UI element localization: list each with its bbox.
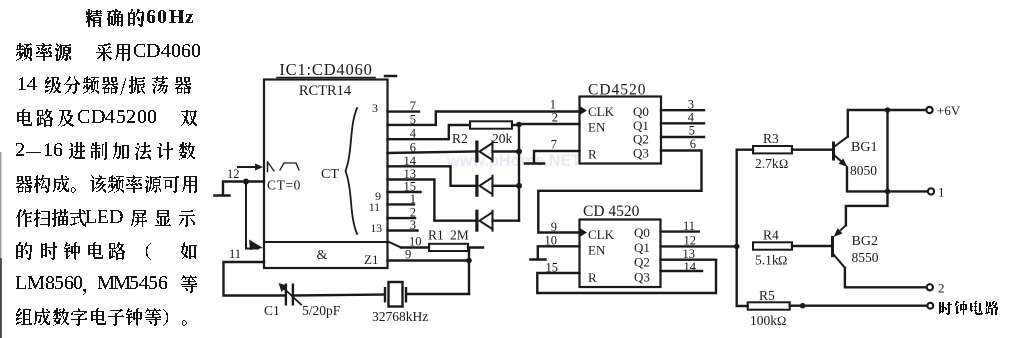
diode D3 (475, 210, 519, 232)
IC1 clock input arrow and pulse symbol (238, 162, 299, 172)
svg-text:Q2: Q2 (633, 132, 649, 147)
svg-text:2.7k: 2.7k (755, 156, 779, 171)
wire pin 7 stub (388, 110, 420, 112)
node pin9/R1 junction (466, 258, 472, 264)
terminal +6V (926, 103, 960, 118)
IC1 label CT=0 (267, 178, 301, 193)
resistor R1 2M (428, 228, 483, 252)
IC1 pin 9 label (405, 248, 411, 262)
svg-text:CT=0: CT=0 (267, 178, 301, 193)
left description paragraph (CJK vector text) (16, 9, 200, 326)
U2 output pin labels 3 4 5 6 (688, 98, 696, 152)
svg-text:8550: 8550 (852, 250, 879, 265)
IC IC1 CD4060 body RCTR14 (264, 80, 388, 269)
diode D1 (475, 141, 519, 163)
ground at pin 12 (215, 194, 230, 197)
IC U2 CD4520 upper label (588, 82, 647, 99)
svg-text:R5: R5 (759, 288, 775, 303)
wire pin 2 stub (388, 217, 416, 219)
wire pin12 down to Z1 input (246, 182, 258, 249)
IC1 label Z1 (364, 252, 378, 267)
svg-text:1: 1 (550, 98, 556, 112)
wire U3 Q3 pin14 stub (661, 270, 703, 272)
wire pin 10 to R1 (388, 242, 429, 248)
node pin12 junction (243, 179, 249, 185)
svg-text:CD 4520: CD 4520 (583, 203, 640, 220)
svg-text:6: 6 (690, 137, 696, 151)
svg-text:5.1k: 5.1k (755, 253, 779, 268)
node R2/diode junction (516, 122, 522, 128)
svg-text:CLK: CLK (588, 104, 615, 119)
svg-text:BG1: BG1 (851, 140, 877, 155)
wire U2 Q0 pin3 stub (661, 109, 704, 111)
IC U2 CD4520 upper body (580, 97, 662, 164)
capacitor C1 variable 5/20pF (264, 283, 341, 318)
diode D2 (475, 175, 519, 197)
wire pin 9 (388, 259, 470, 261)
svg-text:13: 13 (371, 223, 383, 235)
svg-text:Ω: Ω (778, 254, 787, 268)
wire R5 to clock circuit terminal (790, 305, 928, 307)
wire R1 down to crystal node (468, 249, 470, 294)
wire pin 13 to D3 (388, 180, 476, 221)
svg-text:5: 5 (689, 124, 695, 138)
svg-text:2M: 2M (450, 228, 469, 243)
svg-text:9: 9 (551, 220, 557, 234)
transistor BG2 8550 PNP (831, 225, 879, 267)
svg-text:2: 2 (552, 111, 558, 125)
svg-text:R4: R4 (763, 228, 779, 243)
node D2 junction (516, 183, 522, 189)
IC U3 CD4520 lower body (580, 220, 661, 288)
svg-text:20k: 20k (492, 131, 513, 146)
wire pin 1 stub (388, 203, 415, 205)
node +6V rail junction (885, 107, 891, 113)
scan edge mark (0, 152, 2, 338)
ground at U2 pin7 (525, 162, 544, 165)
svg-text:2: 2 (938, 281, 945, 296)
svg-text:9: 9 (375, 189, 381, 203)
svg-text:100k: 100k (750, 313, 777, 328)
IC1 pin 12 label (227, 167, 240, 181)
svg-text:Q3: Q3 (633, 146, 649, 161)
wire diode OR bus vertical (518, 125, 520, 221)
svg-text:EN: EN (588, 120, 606, 135)
svg-text:EN: EN (588, 243, 606, 258)
svg-text:R1: R1 (428, 228, 444, 243)
wire C1 to crystal (294, 295, 384, 296)
label clock circuit (CJK vector) (939, 301, 998, 315)
wire U3 Q1 pin12 to bus (661, 245, 737, 247)
wire crystal to pin9 node (407, 293, 469, 295)
wire pin12 to ground (223, 182, 246, 195)
wire pin 3 stub (388, 229, 418, 231)
svg-text:R3: R3 (763, 131, 779, 146)
terminal 1 (928, 185, 945, 200)
wire pin 5 to CD4520 CLK pin1 (388, 112, 580, 125)
wire R4 to BG2 base (792, 245, 831, 247)
wire U3 R pin15 feedback loop (537, 260, 716, 293)
resistor R5 100k (748, 288, 790, 328)
svg-text:CLK: CLK (588, 227, 615, 242)
IC1 internal stage numbers (369, 101, 382, 235)
wire BG2 collector to terminal 2 (845, 268, 927, 288)
svg-text:Q1: Q1 (634, 240, 650, 255)
svg-text:CT: CT (321, 167, 339, 182)
Z1 input arrow (249, 240, 263, 251)
IC1 CT brace (321, 108, 357, 234)
svg-text:IC1:CD4060: IC1:CD4060 (279, 60, 372, 79)
wire U2 Q1 pin4 stub (661, 122, 704, 124)
crystal Y1 32768kHz (372, 282, 428, 324)
svg-text:1: 1 (938, 185, 945, 200)
wire pin 4 to R2 (388, 125, 471, 139)
svg-text:R: R (588, 270, 597, 285)
watermark (446, 152, 581, 170)
svg-text:11: 11 (369, 202, 380, 214)
wire U3 Q2 pin13 to loop (661, 259, 717, 261)
svg-text:Q3: Q3 (634, 270, 650, 285)
svg-text:R2: R2 (452, 131, 468, 146)
transistor BG1 8050 NPN (832, 137, 877, 179)
svg-text:7: 7 (551, 138, 557, 152)
wire pin 15 stub (388, 191, 421, 193)
IC U3 CD4520 lower label (583, 203, 640, 220)
wire pin 6 to D1 (388, 152, 476, 154)
node on R5 output (800, 303, 806, 309)
svg-text:R: R (588, 147, 597, 162)
wire BG1 emitter to terminal 1 (847, 168, 928, 192)
wire pin 11 to C1 (224, 262, 285, 296)
wire pin 14 to D2 (388, 166, 476, 186)
ground at U3 pin10 (531, 258, 546, 261)
svg-text:3: 3 (372, 101, 378, 115)
wire U3 Q0 pin11 stub (661, 230, 699, 232)
wire BG1 collector to +6V rail (848, 110, 927, 137)
svg-text:+6V: +6V (937, 103, 961, 118)
wire R2 to EN pin2 (519, 123, 580, 125)
svg-text:Q2: Q2 (634, 255, 650, 270)
svg-text:32768kHz: 32768kHz (372, 309, 428, 324)
svg-text:C1: C1 (264, 303, 280, 318)
wire U2 R pin7 to ground (534, 151, 580, 163)
wire output bus vertical (737, 150, 753, 306)
terminal 2 (927, 281, 945, 296)
svg-text:Ω: Ω (779, 157, 788, 171)
IC1 pin 11 label (229, 247, 241, 261)
resistor R2 20k (452, 121, 519, 146)
svg-text:Q0: Q0 (634, 225, 650, 240)
resistor R3 2.7k (753, 131, 792, 171)
U2 pin labels 1 2 7 (550, 98, 558, 152)
node emitter junction (885, 189, 891, 195)
IC1 pin 10 label (409, 235, 422, 249)
svg-text:8050: 8050 (850, 163, 877, 178)
wire U2 Q3 pin6 to U3 CLK pin9 (538, 151, 701, 233)
op-amp U_IC1 label IC1:CD4060 (277, 60, 396, 79)
wire +6V down to BG2 emitter (846, 110, 888, 225)
svg-text:&: & (317, 248, 328, 263)
svg-text:5/20pF: 5/20pF (302, 303, 341, 318)
U3 pin labels 9 10 15 (545, 220, 559, 275)
svg-text:www.pHome.NET: www.pHome.NET (446, 152, 581, 170)
resistor R4 5.1k (753, 228, 792, 268)
svg-text:Q0: Q0 (633, 104, 649, 119)
wire U3 EN pin10 to ground (538, 246, 580, 258)
IC1 oscillator gate symbol & (317, 248, 328, 263)
IC1 output pin labels 7 5 4 6 14 13 15 1 2 3 (404, 99, 417, 232)
svg-text:Ω: Ω (777, 314, 786, 328)
U3 output pin labels 11 12 13 14 (683, 219, 697, 274)
svg-text:RCTR14: RCTR14 (299, 83, 352, 99)
node bus/pin12 junction (734, 244, 740, 250)
wire U2 Q2 pin5 stub (661, 136, 704, 138)
node D1 junction (516, 149, 522, 155)
wire pin12 to IC1 (246, 180, 264, 182)
terminal clock circuit (927, 303, 933, 309)
svg-text:11: 11 (229, 247, 241, 261)
svg-text:Z1: Z1 (364, 252, 378, 267)
svg-text:BG2: BG2 (852, 234, 878, 249)
wire R3 to BG1 base (792, 148, 832, 150)
svg-text:12: 12 (227, 167, 240, 181)
